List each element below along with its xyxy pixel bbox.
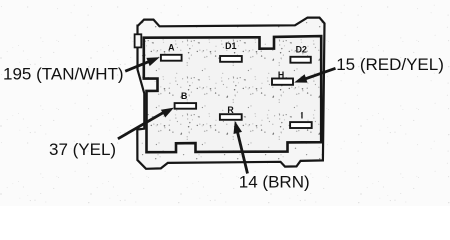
left side latch tab xyxy=(135,34,142,47)
pin B xyxy=(175,91,197,109)
leader line 37 xyxy=(118,111,166,139)
connector outer body outline xyxy=(137,18,324,169)
svg-text:D2: D2 xyxy=(296,44,307,54)
arrowhead 195 xyxy=(146,57,159,66)
pin D2 xyxy=(290,44,310,62)
pin I xyxy=(290,110,312,128)
svg-text:195 (TAN/WHT): 195 (TAN/WHT) xyxy=(3,64,124,83)
svg-text:B: B xyxy=(181,91,187,101)
pin D1 xyxy=(220,41,242,62)
svg-text:A: A xyxy=(168,42,175,52)
pin A xyxy=(161,42,182,60)
arrowhead 15 xyxy=(294,74,307,82)
leader line 14 xyxy=(237,128,248,174)
connector inner cavity outline xyxy=(144,36,321,152)
arrowhead 37 xyxy=(161,108,174,118)
svg-text:37 (YEL): 37 (YEL) xyxy=(49,140,116,159)
arrowhead 14 xyxy=(234,121,243,134)
leader line 195 xyxy=(125,60,152,71)
svg-text:I: I xyxy=(301,110,303,120)
pin R xyxy=(220,105,242,120)
svg-text:15 (RED/YEL): 15 (RED/YEL) xyxy=(336,55,444,74)
svg-text:14 (BRN): 14 (BRN) xyxy=(239,173,310,192)
pin H xyxy=(272,70,293,85)
svg-text:D1: D1 xyxy=(225,41,236,51)
leader line 15 xyxy=(302,68,336,80)
